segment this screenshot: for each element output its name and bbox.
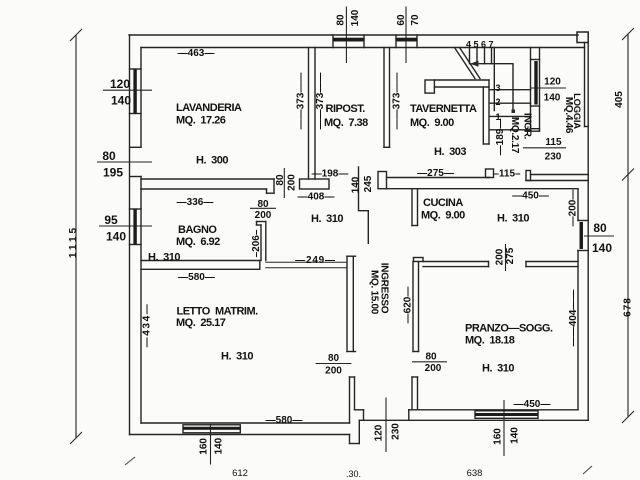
svg-text:200: 200	[325, 366, 342, 377]
wall W3 hook left	[266, 189, 268, 193]
dim leader left window2	[99, 225, 152, 227]
entrance step bottom	[350, 443, 360, 445]
entrance recess top	[355, 409, 364, 411]
wall W9 cap	[413, 351, 419, 353]
svg-text:245: 245	[363, 175, 374, 192]
svg-text:140: 140	[350, 9, 361, 26]
svg-text:MQ. 17.26: MQ. 17.26	[176, 115, 226, 127]
svg-text:MQ. 7.38: MQ. 7.38	[324, 117, 368, 129]
wall left inner upper	[140, 48, 142, 148]
tavernetta understairs wall foot	[425, 80, 434, 93]
dim leader cucina passage	[505, 244, 507, 271]
svg-text:612: 612	[232, 468, 248, 479]
left window1 sill bottom	[130, 113, 142, 115]
wall W5 line2	[141, 268, 260, 270]
wall W1 ripostiglio-left line1	[308, 48, 310, 180]
upper flight tread d	[491, 48, 493, 64]
wall W9 ingresso-right line1	[412, 262, 414, 352]
svg-text:140: 140	[592, 241, 612, 255]
glass letto window	[183, 427, 240, 430]
svg-text:.30.: .30.	[346, 469, 361, 479]
svg-text:6: 6	[481, 40, 486, 50]
wall W1 line2	[314, 48, 316, 180]
wall W3 bagno-top line1	[141, 178, 274, 180]
dim leader bagno door	[250, 207, 276, 209]
dim leader left window1	[103, 89, 152, 91]
svg-text:80: 80	[275, 174, 286, 186]
svg-text:——373——: ——373——	[315, 73, 326, 130]
entrance left stub outer	[349, 377, 351, 423]
svg-text:—275—: —275—	[417, 168, 454, 179]
entrance step left	[349, 435, 351, 444]
vestibule-loggia wall left line	[530, 48, 532, 132]
svg-text:5: 5	[473, 40, 478, 50]
wall W11 line2	[488, 80, 490, 144]
svg-text:195: 195	[103, 166, 123, 180]
left window2 sill top	[130, 208, 142, 210]
wall W3 line2	[141, 188, 267, 190]
svg-text:405: 405	[614, 91, 625, 108]
svg-text:230: 230	[391, 423, 402, 440]
upper flight tread b	[476, 48, 478, 64]
svg-text:140: 140	[510, 427, 521, 444]
dim line left 1115	[75, 35, 77, 438]
glass vestibule window	[534, 61, 537, 105]
wall W3 hook right	[273, 179, 275, 193]
svg-text:4: 4	[466, 40, 471, 50]
entrance step right	[358, 420, 360, 443]
dim leader loggia door	[523, 147, 566, 149]
bottom dim tick left	[125, 457, 135, 465]
wall W5 bagno-bottom line1	[141, 260, 260, 262]
wall W6 middle jamb bump	[378, 172, 387, 189]
svg-text:BAGNO: BAGNO	[178, 224, 217, 236]
svg-text:200: 200	[255, 210, 272, 221]
svg-text:80: 80	[425, 352, 437, 363]
wall right inner lower	[577, 251, 579, 410]
wall W8 cap box	[414, 258, 424, 262]
glass top window2	[396, 38, 417, 42]
wall W8 segB jamb	[525, 262, 527, 267]
wall bottom-right inner	[409, 409, 578, 411]
dim leader pranzo door	[412, 361, 447, 363]
opening 249 bottom line	[266, 267, 347, 269]
svg-text:MQ. 15.00: MQ. 15.00	[369, 270, 380, 315]
bottom dim tick right	[583, 466, 592, 474]
svg-text:RIPOST.: RIPOST.	[326, 103, 366, 115]
svg-text:140: 140	[111, 94, 131, 108]
svg-text:INGR.: INGR.	[522, 113, 533, 140]
wall W10 cap top	[347, 255, 356, 257]
pranzo window box	[475, 411, 538, 419]
wall W11 cap	[483, 143, 489, 145]
door leader polyline	[359, 167, 369, 243]
glass top window1	[333, 38, 364, 42]
wall W10 cap bottom	[347, 351, 356, 353]
wall right inner upper	[577, 189, 579, 221]
svg-text:—620—: —620—	[403, 287, 414, 324]
upper flight tread a	[469, 48, 471, 64]
svg-text:115: 115	[545, 137, 562, 148]
svg-text:H. 310: H. 310	[482, 363, 514, 375]
wall W3 hook bottom	[267, 192, 275, 194]
svg-text:H. 303: H. 303	[434, 146, 466, 158]
svg-text:——404——: ——404——	[568, 290, 579, 347]
svg-text:7: 7	[488, 40, 493, 50]
svg-text:140: 140	[213, 437, 224, 454]
svg-text:H. 300: H. 300	[196, 155, 228, 167]
vestibule window sill bottom	[531, 105, 540, 107]
svg-text:200: 200	[425, 363, 442, 374]
wall W7 cucina stub line1	[411, 189, 413, 226]
wall W2 tavernetta-left line1	[383, 48, 385, 148]
svg-text:MQ.2.17: MQ.2.17	[509, 117, 520, 154]
loggia railing inner line	[584, 43, 586, 127]
dim leader letto window	[210, 424, 212, 465]
wall W7 line2	[417, 189, 419, 226]
wall top outer	[129, 34, 578, 36]
svg-text:—189—: —189—	[495, 119, 506, 156]
wall W4 cap bottom	[257, 224, 262, 226]
svg-text:CUCINA: CUCINA	[423, 197, 463, 209]
svg-text:120: 120	[544, 77, 561, 88]
wall bottom-left inner	[141, 422, 350, 424]
entrance left stub inner	[354, 377, 356, 410]
top window1 right sill	[363, 35, 365, 48]
dim leader letto door	[316, 363, 352, 365]
svg-text:160: 160	[493, 428, 504, 445]
wall left outer	[129, 35, 131, 435]
entrance right jamb	[408, 410, 410, 421]
svg-text:230: 230	[545, 152, 562, 163]
svg-text:80: 80	[257, 199, 269, 210]
cucina window sill bottom	[578, 250, 588, 252]
top window1 left sill	[332, 35, 334, 48]
wall W9 line2	[418, 262, 420, 352]
svg-text:70: 70	[410, 14, 421, 26]
svg-text:200: 200	[287, 174, 298, 191]
svg-text:—450—: —450—	[514, 399, 551, 410]
svg-text:—434—: —434—	[142, 303, 153, 348]
wall W9 stub cap	[412, 376, 418, 378]
svg-text:140: 140	[544, 93, 561, 104]
letto window box	[183, 425, 240, 433]
svg-text:80: 80	[328, 353, 340, 364]
svg-text:—408—: —408—	[298, 192, 335, 203]
wall W4 cap left	[256, 222, 258, 226]
dim leader cucina window	[584, 235, 614, 237]
left window1 sill top	[130, 68, 142, 70]
svg-text:200: 200	[495, 248, 506, 265]
left window2 sill bottom	[130, 244, 142, 246]
wall bottom-left outer	[130, 434, 350, 436]
wall left inner lower	[140, 177, 142, 424]
wall W4 line2	[265, 222, 267, 261]
wall W1 foot	[300, 179, 330, 189]
upper flight tread c	[484, 48, 486, 64]
tavernetta understairs wall line2	[434, 86, 489, 88]
svg-text:1115: 1115	[68, 225, 79, 258]
top window2 left sill	[395, 35, 397, 48]
stair break line 1	[455, 48, 476, 79]
wall W6 top line	[387, 177, 490, 179]
door jamb cap 80x195 top	[131, 146, 142, 148]
vestibule-loggia wall right line	[539, 48, 541, 132]
svg-text:120: 120	[110, 77, 130, 91]
svg-text:1: 1	[495, 112, 500, 122]
glass left window2	[133, 209, 136, 245]
stair tread 4	[490, 129, 531, 131]
stair arrow shaft	[472, 64, 513, 111]
dim leader entrance door	[385, 398, 387, 453]
tavernetta understairs wall line1	[434, 79, 489, 81]
svg-text:—463—: —463—	[178, 48, 215, 59]
svg-text:80: 80	[102, 149, 116, 163]
svg-text:—249—: —249—	[295, 255, 336, 266]
svg-text:TAVERNETTA: TAVERNETTA	[410, 103, 477, 115]
wall W4 line1	[260, 225, 262, 261]
wall W11 tavernetta-right line1	[482, 87, 484, 144]
cucina window sill top	[578, 220, 588, 222]
svg-text:–115–: –115–	[493, 169, 521, 180]
svg-text:—580—: —580—	[178, 272, 215, 283]
wall W10 ingresso-left line1	[346, 256, 348, 351]
svg-text:275: 275	[505, 247, 516, 264]
svg-text:678: 678	[623, 297, 634, 317]
loggia bottom jamb	[526, 171, 531, 181]
wall W8 segA line1	[423, 261, 489, 263]
svg-text:140: 140	[351, 176, 362, 193]
svg-text:MQ. 25.17: MQ. 25.17	[176, 317, 226, 329]
glass pranzo window	[475, 413, 538, 416]
wall W7 cap	[412, 225, 418, 227]
svg-text:638: 638	[467, 468, 483, 479]
loggia bottom wall top line	[531, 174, 589, 176]
svg-text:—580—: —580—	[266, 415, 303, 426]
dim leader top window2	[405, 7, 407, 64]
svg-text:—198—: —198—	[312, 169, 349, 180]
dim leader top window1	[345, 7, 347, 64]
svg-text:–206–: –206–	[251, 229, 262, 257]
svg-text:80: 80	[336, 14, 347, 26]
dim leader middle door 80	[283, 168, 285, 198]
svg-text:2: 2	[495, 97, 500, 107]
svg-text:——373——: ——373——	[296, 73, 307, 130]
svg-text:H. 310: H. 310	[221, 351, 253, 363]
svg-text:LAVANDERIA: LAVANDERIA	[176, 102, 242, 114]
svg-text:3: 3	[495, 83, 500, 93]
loggia pillar	[577, 32, 588, 43]
stair tread 3	[490, 115, 531, 117]
svg-text:MQ. 6.92: MQ. 6.92	[176, 236, 220, 248]
dim leader pranzo window	[503, 400, 505, 456]
wall W8 segB line1	[526, 261, 578, 263]
wall W8 segB line2	[526, 266, 578, 268]
svg-text:80: 80	[593, 221, 607, 235]
entrance recess side	[363, 410, 365, 421]
svg-text:H. 310: H. 310	[497, 213, 529, 225]
wall right outer	[587, 43, 589, 421]
stair break line 2	[460, 48, 481, 79]
dim leader left door	[97, 161, 152, 163]
vestibule window sill top	[531, 59, 540, 61]
vestibule door jamb cap	[531, 129, 540, 132]
stair stringer	[493, 48, 495, 111]
svg-text:—450—: —450—	[512, 191, 549, 202]
wall W10 line2	[352, 256, 354, 351]
dim leader loggia window	[530, 87, 566, 89]
svg-text:——373——: ——373——	[392, 73, 403, 130]
wall W2 line2	[389, 48, 391, 148]
wall W2 cap	[384, 146, 390, 148]
loggia railing cap	[585, 126, 589, 128]
stair tread 2	[490, 102, 531, 104]
dim line right 405 678	[627, 34, 629, 417]
stair direction arrowhead	[470, 61, 479, 67]
top window2 right sill	[416, 35, 418, 48]
glass cucina window	[580, 222, 584, 249]
svg-text:MQ. 18.18: MQ. 18.18	[465, 335, 515, 347]
svg-text:160: 160	[199, 438, 210, 455]
wall W8 segA jamb	[488, 262, 490, 267]
svg-text:MQ. 9.00: MQ. 9.00	[421, 210, 465, 222]
svg-text:60: 60	[396, 14, 407, 26]
wall W8 segA line2	[423, 266, 489, 268]
stair start dot	[512, 110, 516, 114]
wall bottom-right outer	[359, 419, 588, 421]
svg-text:PRANZO—SOGG.: PRANZO—SOGG.	[465, 323, 553, 335]
wall W4 bagno-right cap top	[257, 221, 266, 223]
glass left window1	[133, 69, 136, 114]
stair tread 1	[490, 89, 531, 91]
svg-text:LETTO MATRIM.: LETTO MATRIM.	[177, 306, 259, 318]
svg-text:—336—: —336—	[177, 197, 214, 208]
loggia bottom wall bottom line	[526, 180, 588, 182]
wall W5 jamb	[259, 261, 261, 270]
entrance left stub cap	[350, 376, 355, 378]
svg-text:95: 95	[104, 213, 118, 227]
wall top inner	[141, 47, 585, 49]
wall W9 stub line1	[411, 377, 413, 410]
svg-text:120: 120	[374, 424, 385, 441]
svg-text:—200—: —200—	[568, 190, 579, 227]
door jamb cap 80x195 bottom	[131, 176, 142, 178]
svg-text:MQ.4.46: MQ.4.46	[563, 97, 574, 134]
svg-text:H. 310: H. 310	[311, 213, 343, 225]
svg-text:MQ. 9.00: MQ. 9.00	[410, 117, 454, 129]
wall W6 right jamb	[486, 169, 494, 178]
wall W9 stub line2	[417, 377, 419, 410]
wall W6 bottom line	[387, 188, 579, 190]
svg-text:140: 140	[106, 230, 126, 244]
svg-text:H. 310: H. 310	[148, 252, 180, 264]
opening 249 top line	[266, 261, 347, 263]
